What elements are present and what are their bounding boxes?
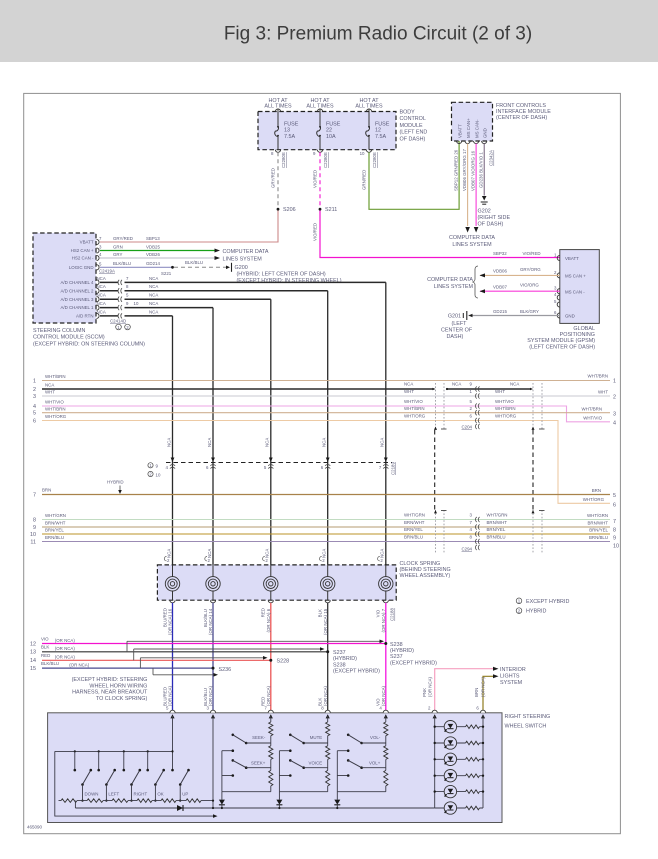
switch UP (171, 750, 173, 752)
connector C294 (475, 545, 476, 550)
svg-text:7.5A: 7.5A (375, 134, 386, 140)
svg-text:EXCEPT HYBRID: EXCEPT HYBRID (526, 599, 569, 605)
svg-text:GRN/RED: GRN/RED (362, 170, 367, 190)
wire BLK from clock spring to switch (327, 603, 329, 713)
svg-text:OF DASH): OF DASH) (478, 222, 504, 228)
LED resistor 3 (466, 757, 480, 762)
svg-text:8: 8 (613, 528, 616, 534)
svg-text:RED: RED (41, 653, 50, 658)
wire 7 BRN full run (42, 494, 610, 496)
group diode to return rail (336, 792, 338, 800)
svg-text:CONTROL: CONTROL (400, 116, 426, 122)
svg-text:(OR NCA) 14: (OR NCA) 14 (208, 608, 213, 635)
svg-text:A/D CHANNEL 1: A/D CHANNEL 1 (60, 305, 94, 310)
svg-text:(RIGHT SIDE: (RIGHT SIDE (478, 215, 511, 221)
C2189 pin on wire x=213 (211, 458, 215, 463)
svg-text:NCA: NCA (207, 438, 212, 447)
svg-text:GD215: GD215 (493, 309, 507, 314)
resistor chain on x=270.8 (270, 716, 272, 722)
svg-text:C2342A: C2342A (489, 150, 494, 166)
FCIM connector pin (465, 141, 470, 144)
inline connector C2189 (dashed row) (166, 462, 392, 464)
svg-text:BRN/YEL: BRN/YEL (45, 528, 64, 533)
d-pad return line with diode (75, 807, 434, 809)
svg-text:BLU/RED: BLU/RED (162, 608, 167, 627)
svg-text:G201: G201 (448, 314, 461, 320)
svg-text:S238: S238 (333, 662, 346, 668)
svg-text:C2414D: C2414D (110, 319, 126, 324)
svg-text:A/D CHANNEL 2: A/D CHANNEL 2 (60, 288, 94, 293)
wire GRY VDB26 (HS2 CAN-) (100, 257, 215, 259)
wire GRN VDB25 (HS2 CAN+) to computer data lines (100, 250, 215, 252)
wire VDB06 GRY/ORG to GPSM MS CAN+ (480, 274, 560, 276)
svg-text:BRN: BRN (592, 488, 601, 493)
module: Steering Column Control Module (SCCM) (33, 233, 96, 323)
splice S228 (269, 659, 272, 662)
svg-text:NCA: NCA (207, 549, 212, 558)
svg-text:2: 2 (33, 387, 36, 393)
wire NCA A/D RTN (100, 315, 119, 317)
svg-text:12: 12 (375, 128, 381, 134)
LED resistor 6 (466, 806, 480, 811)
svg-text:C204: C204 (462, 425, 473, 430)
svg-text:WHT/GRN: WHT/GRN (404, 513, 425, 518)
svg-text:10: 10 (156, 472, 161, 477)
wire PNK to interior lights system (435, 669, 494, 713)
wire 3 WHT full run (42, 395, 610, 397)
svg-text:NCA: NCA (97, 301, 106, 306)
svg-text:NCA: NCA (149, 276, 158, 281)
svg-text:WHT: WHT (495, 389, 505, 394)
svg-text:LOGIC GND: LOGIC GND (69, 265, 94, 270)
svg-text:10A: 10A (326, 134, 336, 140)
svg-text:6: 6 (33, 419, 36, 425)
svg-text:VBATT: VBATT (80, 240, 94, 245)
wire 4 WHT/VIO with jog to edge (42, 406, 610, 422)
svg-text:NCA: NCA (45, 383, 54, 388)
svg-text:WHT: WHT (45, 390, 55, 395)
connector pin at fuse box top (366, 109, 371, 112)
svg-text:WHEEL HORN WIRING: WHEEL HORN WIRING (89, 683, 147, 689)
svg-text:NCA: NCA (149, 309, 158, 314)
svg-text:C2280E: C2280E (323, 152, 328, 168)
svg-text:FUSE: FUSE (375, 121, 390, 127)
resistor ladder element (161, 798, 176, 803)
wire BLK/BLU from S221 to G200 (dashed) (174, 266, 227, 268)
LED 5 (444, 785, 456, 797)
svg-text:BLK: BLK (41, 645, 49, 650)
svg-text:(OR NCA) 7: (OR NCA) 7 (381, 608, 386, 632)
svg-text:NCA: NCA (97, 284, 106, 289)
svg-text:OF DASH): OF DASH) (400, 136, 426, 142)
svg-text:COMPUTER DATA: COMPUTER DATA (427, 277, 473, 283)
C2189 pin on wire x=327.7 (326, 458, 330, 463)
svg-text:BLK/BLU: BLK/BLU (41, 661, 59, 666)
svg-text:NCA: NCA (97, 293, 106, 298)
svg-text:WHEEL SWITCH: WHEEL SWITCH (505, 723, 547, 729)
resistor ladder element (61, 798, 77, 803)
svg-text:13: 13 (30, 650, 36, 656)
resistor ladder element (137, 798, 152, 803)
svg-text:C294: C294 (462, 547, 473, 552)
svg-text:OK: OK (157, 791, 163, 796)
svg-text:BRN/WHT: BRN/WHT (45, 521, 66, 526)
svg-text:9: 9 (613, 536, 616, 542)
svg-text:12: 12 (30, 641, 36, 647)
switch box connector pins (170, 710, 175, 713)
svg-text:VOL+: VOL+ (369, 760, 381, 765)
group bus (221, 751, 223, 792)
diagram frame (24, 93, 621, 833)
wire 8 WHT/GRN through C294 (42, 519, 610, 521)
svg-text:5: 5 (33, 411, 36, 417)
svg-text:(OR NCA): (OR NCA) (69, 663, 90, 668)
svg-text:POSITIONING: POSITIONING (560, 332, 595, 338)
svg-text:BRN: BRN (474, 688, 479, 697)
svg-text:1: 1 (613, 379, 616, 385)
svg-text:S236: S236 (219, 667, 232, 673)
wire NCA A/D CHANNEL 3 (100, 298, 119, 300)
svg-text:10: 10 (30, 532, 36, 538)
wire NCA A/D CHANNEL 1 (100, 307, 119, 309)
svg-text:WHT/BRN: WHT/BRN (404, 406, 425, 411)
svg-text:NCA: NCA (97, 276, 106, 281)
svg-text:BRN/YEL: BRN/YEL (404, 527, 423, 532)
svg-text:(LEFT CENTER OF DASH): (LEFT CENTER OF DASH) (529, 344, 595, 350)
svg-text:22: 22 (326, 128, 332, 134)
svg-text:WHT/VIO: WHT/VIO (45, 400, 64, 405)
wire BLU/RED from clock spring to switch (172, 603, 174, 713)
branch wires joining splices (127, 640, 380, 642)
wire GRY/RED from fuse 13 (dashed) (277, 152, 279, 207)
svg-text:S206: S206 (283, 207, 296, 213)
svg-text:FUSE: FUSE (326, 121, 341, 127)
wire 15 BLK/BLU (OR NCA) to splice (42, 667, 213, 669)
clock spring assembly box (157, 565, 396, 600)
svg-text:SBP32: SBP32 (493, 251, 507, 256)
svg-text:WHEEL ASSEMBLY): WHEEL ASSEMBLY) (400, 573, 451, 579)
svg-text:G200: G200 (235, 265, 248, 271)
LED row 5 (435, 791, 483, 793)
svg-text:BLK/GRY: BLK/GRY (520, 309, 539, 314)
switch VOL+ (347, 759, 350, 762)
svg-text:FUSE: FUSE (284, 121, 299, 127)
svg-text:SYSTEM MODULE (GPSM): SYSTEM MODULE (GPSM) (527, 338, 595, 344)
svg-text:11: 11 (30, 540, 36, 546)
LED resistor 4 (466, 773, 480, 778)
svg-text:BRN: BRN (42, 488, 51, 493)
svg-text:RIGHT STEERING: RIGHT STEERING (505, 714, 551, 720)
svg-text:NCA: NCA (166, 549, 171, 558)
footnote marker 1 pin 9 (148, 463, 153, 468)
svg-text:NCA: NCA (265, 438, 270, 447)
svg-text:VBATT: VBATT (457, 124, 462, 138)
LED 4 (444, 770, 456, 782)
ground G202 (482, 196, 487, 201)
wire GRN/RED from fuse 12 to FCIM VBATT (369, 141, 459, 209)
svg-text:VDB07: VDB07 (493, 284, 507, 289)
LED 6 (444, 802, 456, 814)
svg-text:BRN/WHT: BRN/WHT (487, 520, 508, 525)
fuse F22 10A (317, 127, 321, 137)
svg-text:BRN/BLU: BRN/BLU (589, 535, 608, 540)
svg-text:(EXCEPT HYBRID): (EXCEPT HYBRID) (333, 669, 380, 675)
svg-text:DOWN: DOWN (85, 791, 99, 796)
group bottom tie (337, 791, 386, 793)
svg-text:SBP12 GRN/RED 26: SBP12 GRN/RED 26 (454, 149, 459, 191)
svg-text:A/D CHANNEL 4: A/D CHANNEL 4 (60, 280, 94, 285)
FCIM connector pin (457, 141, 462, 144)
svg-text:VIO/RED: VIO/RED (523, 251, 541, 256)
svg-text:S237: S237 (333, 650, 346, 656)
svg-text:BLK/BLU: BLK/BLU (203, 609, 208, 627)
wire VIO/RED SBP32 from S211 to GPSM VBATT (320, 211, 560, 258)
wire VDB07 VIO/ORG from FCIM MS CAN- (475, 144, 477, 227)
FCIM connector pin (482, 141, 487, 144)
svg-text:GD236 BLK/VIO 1: GD236 BLK/VIO 1 (479, 152, 484, 188)
svg-text:UP: UP (182, 791, 188, 796)
svg-text:1: 1 (33, 379, 36, 385)
svg-text:(OR NCA) 16: (OR NCA) 16 (168, 608, 173, 635)
wire GRY/RED SBP13 from S206 to SCCM VBATT (100, 211, 278, 243)
svg-text:3: 3 (613, 411, 616, 417)
wire 12 VIO (OR NCA) to splice (42, 643, 386, 645)
svg-text:BRN/YEL: BRN/YEL (589, 528, 608, 533)
svg-text:WHT: WHT (404, 389, 414, 394)
svg-text:GRN: GRN (113, 244, 123, 249)
svg-text:LINES SYSTEM: LINES SYSTEM (223, 256, 263, 262)
wire BRN to interior lights system (483, 676, 494, 713)
svg-text:NCA: NCA (322, 549, 327, 558)
C2189 pin on wire x=385.8 (384, 458, 388, 463)
splice S236 (212, 667, 215, 670)
svg-text:NCA: NCA (380, 549, 385, 558)
svg-text:COMPUTER DATA: COMPUTER DATA (449, 235, 495, 241)
svg-text:GND: GND (482, 128, 487, 138)
wire VDB07 VIO/ORG to GPSM MS CAN- (480, 290, 560, 292)
legend: footnote 2 hybrid (516, 608, 522, 614)
svg-text:WHT/VIO: WHT/VIO (404, 399, 423, 404)
svg-text:LIGHTS: LIGHTS (500, 674, 520, 680)
d-pad resistor ladder (59, 800, 214, 802)
svg-text:VIO: VIO (376, 609, 381, 617)
module: Front Controls Interface Module (452, 102, 493, 141)
svg-text:A/D CHANNEL 3: A/D CHANNEL 3 (60, 297, 94, 302)
switch assembly: Right Steering Wheel Switch (48, 713, 502, 823)
computer data lines system brace (472, 266, 478, 298)
svg-text:RED: RED (261, 697, 266, 706)
svg-text:465090: 465090 (27, 825, 43, 830)
switch VOICE (289, 759, 292, 762)
resistor ladder element (186, 798, 201, 803)
svg-text:SBP13: SBP13 (146, 236, 160, 241)
svg-text:4: 4 (33, 404, 36, 410)
svg-text:MS CAN +: MS CAN + (565, 274, 586, 279)
svg-text:LINES SYSTEM: LINES SYSTEM (434, 284, 474, 290)
svg-text:RED: RED (261, 608, 266, 617)
connector C204 (475, 424, 476, 429)
svg-text:C2280E: C2280E (281, 152, 286, 168)
svg-text:2: 2 (613, 395, 616, 401)
svg-text:NCA: NCA (510, 382, 519, 387)
LED 2 (444, 737, 456, 749)
C2189 pin on wire x=270.8 (269, 458, 273, 463)
svg-text:BRN/WHT: BRN/WHT (588, 521, 609, 526)
svg-text:(OR NCA): (OR NCA) (55, 655, 76, 660)
svg-text:HS2 CAN -: HS2 CAN - (72, 256, 94, 261)
svg-text:LEFT: LEFT (108, 791, 119, 796)
svg-text:MUTE: MUTE (310, 735, 323, 740)
switch DOWN (74, 750, 76, 752)
wire 2 NCA to connector C204 (42, 388, 433, 390)
svg-text:WHT/GRN: WHT/GRN (587, 513, 608, 518)
group bus (336, 751, 338, 792)
svg-text:WHT/BRN: WHT/BRN (45, 374, 66, 379)
svg-text:WHT/VIO: WHT/VIO (583, 416, 602, 421)
wire GD236 BLK/VIO from FCIM GND (483, 144, 485, 196)
svg-text:GRY: GRY (113, 252, 123, 257)
LED 1 (444, 721, 456, 733)
svg-text:GD214: GD214 (146, 261, 160, 266)
wire GD215 BLK/GRY from GPSM GND to G201 (469, 315, 560, 317)
splice S211 (319, 208, 322, 211)
svg-text:GRY/RED: GRY/RED (271, 168, 276, 188)
svg-text:MS CAN -: MS CAN - (565, 289, 585, 294)
wire NCA vertical x=385.8 (385, 282, 387, 565)
pin 5 internal wire (172, 716, 174, 770)
svg-text:BLK/BLU: BLK/BLU (203, 688, 208, 706)
svg-text:HYBRID: HYBRID (526, 609, 546, 615)
footnote marker 2 pin 10 (148, 471, 153, 476)
C2189 pin on wire x=172.5 (171, 458, 175, 463)
fuse F13 7.5A (275, 127, 279, 137)
connector pin at fuse box bottom (366, 150, 371, 153)
wire NCA A/D CHANNEL 4 (100, 281, 119, 283)
svg-text:S221: S221 (161, 271, 172, 276)
svg-text:10: 10 (613, 544, 619, 550)
LED row 2 (435, 742, 483, 744)
legend: footnote 1 except hybrid (516, 598, 522, 604)
switch SEEK- (232, 734, 235, 737)
connector body dashed verticals down to C294 (434, 430, 436, 510)
svg-text:(OR NCA): (OR NCA) (381, 685, 386, 706)
LED 3 (444, 753, 456, 765)
connector pin at fuse box bottom (275, 150, 280, 153)
svg-text:WHT/ORG: WHT/ORG (404, 414, 426, 419)
svg-text:RIGHT: RIGHT (134, 791, 148, 796)
svg-text:NCA: NCA (452, 382, 461, 387)
svg-text:MS CAN-: MS CAN- (474, 119, 479, 138)
wire 11 BRN/BLU through C294 (42, 541, 610, 543)
wire VDB06 GRY/ORG from FCIM MS CAN+ (467, 144, 469, 227)
LED resistor 5 (466, 789, 480, 794)
wire 5 WHT/BRN full run (42, 412, 610, 414)
svg-text:(OR NCA): (OR NCA) (480, 676, 485, 697)
resistor chain on x=385.8 (385, 716, 387, 722)
svg-text:WHT: WHT (598, 389, 608, 394)
svg-text:VIO/RED: VIO/RED (313, 223, 318, 241)
svg-text:(EXCEPT HYBRID): (EXCEPT HYBRID) (390, 660, 437, 666)
splice S238 (384, 642, 387, 645)
svg-text:BRN/BLU: BRN/BLU (404, 535, 423, 540)
svg-text:VDB06: VDB06 (493, 268, 507, 273)
splice S237 (326, 650, 329, 653)
svg-text:MODULE: MODULE (400, 123, 423, 129)
svg-text:WHT/BRN: WHT/BRN (588, 374, 609, 379)
GPSM pins (557, 255, 560, 260)
wire BLK/BLU GD214 (LOGIC GND) (100, 266, 173, 268)
wire RED from clock spring to switch (270, 603, 272, 713)
svg-text:CENTER OF: CENTER OF (441, 327, 473, 333)
svg-text:GRY/ORG: GRY/ORG (520, 267, 541, 272)
svg-text:S238: S238 (390, 642, 403, 648)
svg-text:(OR NCA): (OR NCA) (55, 646, 76, 651)
connector pin at fuse box top (275, 109, 280, 112)
svg-text:LINES SYSTEM: LINES SYSTEM (452, 242, 492, 248)
svg-text:8: 8 (33, 518, 36, 524)
fuse box: Body Control Module (258, 112, 396, 150)
svg-text:BRN/WHT: BRN/WHT (404, 520, 425, 525)
branch stubs (126, 641, 128, 652)
svg-text:NCA: NCA (380, 438, 385, 447)
connector C294 body columns (435, 510, 437, 553)
svg-text:4: 4 (613, 421, 616, 427)
svg-text:PNK: PNK (422, 688, 427, 697)
resistor ladder element (87, 798, 103, 803)
svg-text:(OR NCA): (OR NCA) (428, 676, 433, 697)
svg-text:WHT/BRN: WHT/BRN (45, 406, 66, 411)
svg-text:Fig 3: Premium Radio Circuit (: Fig 3: Premium Radio Circuit (2 of 3) (224, 24, 532, 45)
LED row 3 (435, 758, 483, 760)
svg-text:3: 3 (33, 394, 36, 400)
connector pin at fuse box top (317, 109, 322, 112)
svg-text:NCA: NCA (149, 284, 158, 289)
svg-text:(CENTER OF DASH): (CENTER OF DASH) (496, 115, 547, 121)
svg-text:(OR NCA) 6: (OR NCA) 6 (266, 608, 271, 632)
pin 3 internal wire (212, 716, 214, 808)
svg-text:MS CAN+: MS CAN+ (466, 118, 471, 138)
svg-text:NCA: NCA (265, 549, 270, 558)
svg-text:HYBRID: HYBRID (107, 480, 124, 485)
svg-text:6: 6 (613, 503, 616, 509)
svg-text:NCA: NCA (322, 438, 327, 447)
svg-text:(HYBRID): (HYBRID) (333, 656, 357, 662)
svg-text:(LEFT: (LEFT (452, 321, 468, 327)
connector pin at fuse box bottom (317, 150, 322, 153)
svg-text:CONTROL MODULE (SCCM): CONTROL MODULE (SCCM) (33, 335, 105, 341)
svg-text:VBATT: VBATT (565, 256, 579, 261)
svg-text:(EXCEPT HYBRID: IN STEERING WH: (EXCEPT HYBRID: IN STEERING WHEEL) (237, 278, 342, 284)
svg-text:VIO/RED: VIO/RED (313, 170, 318, 188)
splice S221 (171, 266, 174, 269)
svg-text:VDB26: VDB26 (146, 252, 160, 257)
svg-text:G202: G202 (478, 209, 491, 215)
svg-text:C2189: C2189 (391, 462, 396, 475)
svg-text:DASH): DASH) (447, 334, 464, 340)
svg-text:NCA: NCA (404, 382, 413, 387)
svg-text:SYSTEM: SYSTEM (500, 680, 523, 686)
wire 1 WHT/BRN full run (42, 380, 610, 382)
svg-text:(EXCEPT HYBRID: STEERING: (EXCEPT HYBRID: STEERING (72, 677, 148, 683)
svg-text:(LEFT END: (LEFT END (400, 130, 428, 136)
resistor ladder element (112, 798, 128, 803)
FCIM connector pin (474, 141, 479, 144)
svg-text:BLK: BLK (318, 609, 323, 617)
wire 10 BRN/YEL through C294 (42, 533, 610, 535)
arrows to computer data lines system (465, 227, 470, 233)
svg-text:SEEK+: SEEK+ (251, 760, 266, 765)
fuse F12 7.5A (366, 127, 370, 137)
